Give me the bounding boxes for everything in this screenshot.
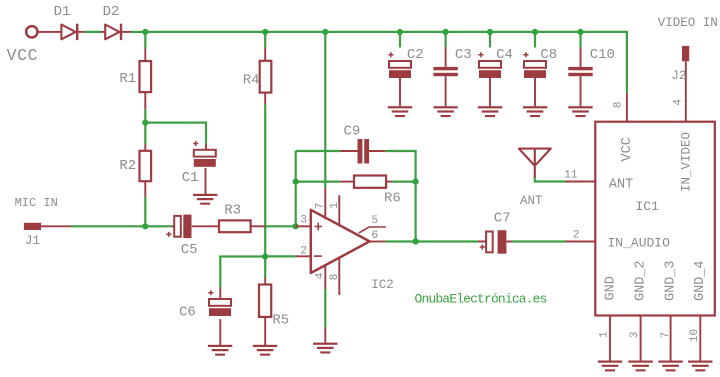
junction rail pin7 bbox=[322, 29, 328, 35]
capacitor C9 leads bbox=[340, 150, 385, 152]
ground under C8 bbox=[523, 106, 547, 117]
capacitor C1 polarized bbox=[193, 141, 216, 167]
op-amp IC2 triangle bbox=[311, 210, 370, 273]
svg-text:2: 2 bbox=[300, 246, 307, 258]
svg-text:ANT: ANT bbox=[520, 194, 543, 208]
junction rail C8 bbox=[532, 29, 538, 35]
resistor R1 bbox=[140, 61, 152, 92]
ground under IC1 pin 10 bbox=[688, 361, 712, 372]
junction rail R4 bbox=[262, 29, 268, 35]
ground under C10 bbox=[568, 106, 592, 117]
svg-text:5: 5 bbox=[372, 215, 379, 227]
svg-text:7: 7 bbox=[660, 332, 672, 339]
svg-text:J2: J2 bbox=[671, 69, 686, 83]
wire mic junction to C5 bbox=[145, 225, 171, 227]
wire J1 to mic junction bbox=[71, 225, 146, 227]
svg-text:R6: R6 bbox=[384, 190, 401, 206]
svg-text:R2: R2 bbox=[119, 158, 136, 174]
IC1 GND_3 pin 7 stub bbox=[670, 316, 672, 361]
wire C4 top lead bbox=[489, 32, 491, 48]
capacitor C9 plates bbox=[358, 139, 363, 164]
resistor R6 right lead bbox=[386, 181, 392, 183]
svg-text:GND: GND bbox=[604, 276, 619, 300]
wire C7 to IC1 IN_AUDIO pin bbox=[512, 240, 566, 242]
svg-text:11: 11 bbox=[564, 170, 578, 182]
connector pad J1 bbox=[24, 223, 41, 230]
resistor R3 right lead bbox=[251, 225, 266, 227]
svg-text:MIC IN: MIC IN bbox=[15, 196, 58, 210]
op-amp pin 3 stub bbox=[296, 225, 310, 227]
IC1 GND pin 1 stub bbox=[609, 316, 611, 361]
IC1 ANT pin stub bbox=[566, 181, 596, 183]
resistor R1 leads bbox=[144, 48, 146, 109]
wire R2 bottom to mic junction bbox=[144, 197, 146, 227]
wire D2 anode stub bbox=[101, 31, 105, 33]
wire rail drop to IC1 VCC pin bbox=[626, 31, 628, 93]
ground under C6 bbox=[208, 345, 232, 356]
svg-text:GND_3: GND_3 bbox=[663, 260, 678, 301]
wire C8 top lead bbox=[534, 32, 536, 48]
wire lower junction to opamp pin2 bbox=[265, 255, 295, 257]
op-amp minus mark bbox=[314, 255, 322, 257]
capacitor C10 top lead bbox=[580, 48, 582, 67]
ground under IC1 pin 3 bbox=[628, 361, 652, 372]
svg-text:8: 8 bbox=[613, 101, 625, 108]
capacitor C5 polarized horizontal bbox=[166, 215, 191, 239]
svg-text:3: 3 bbox=[300, 214, 307, 226]
wire lower junction to R5 top bbox=[264, 257, 266, 279]
svg-text:R5: R5 bbox=[272, 313, 289, 329]
diode D2 bbox=[105, 24, 122, 40]
svg-text:OnubaElectrónica.es: OnubaElectrónica.es bbox=[415, 292, 547, 307]
svg-text:R4: R4 bbox=[243, 73, 260, 89]
svg-text:C1: C1 bbox=[182, 170, 199, 186]
ground under R5 bbox=[253, 345, 277, 356]
op-amp pin 5 stub bbox=[359, 227, 386, 233]
svg-text:C2: C2 bbox=[407, 47, 424, 63]
svg-text:C10: C10 bbox=[590, 47, 615, 63]
resistor R6 left lead bbox=[340, 181, 354, 183]
wire R3 right to opamp pin3 junction bbox=[265, 225, 295, 227]
junction feedback right bbox=[413, 179, 419, 185]
resistor R2 leads bbox=[144, 144, 146, 196]
capacitor C7 polarized horizontal bbox=[480, 230, 507, 254]
IC1 GND_2 pin 3 stub bbox=[640, 316, 642, 361]
resistor R4 bbox=[260, 61, 272, 93]
resistor R4 leads bbox=[264, 47, 266, 104]
wire feedback left vertical bbox=[295, 151, 297, 227]
capacitor C1 leads bbox=[205, 144, 208, 194]
svg-text:J1: J1 bbox=[25, 234, 40, 248]
IC1 VCC pin stub bbox=[626, 93, 628, 122]
svg-text:GND_2: GND_2 bbox=[634, 260, 649, 301]
capacitor C3 top lead bbox=[445, 48, 447, 67]
svg-text:1: 1 bbox=[599, 331, 611, 338]
svg-text:4: 4 bbox=[315, 272, 327, 279]
wire C9 right lead bbox=[385, 150, 416, 152]
junction rail C2 bbox=[397, 29, 403, 35]
capacitor C2 polarized bbox=[388, 52, 411, 78]
junction feedback left bbox=[293, 179, 299, 185]
svg-text:VCC: VCC bbox=[620, 137, 635, 161]
svg-text:8: 8 bbox=[329, 274, 341, 281]
junction rail C4 bbox=[487, 29, 493, 35]
capacitor C4 bottom lead bbox=[489, 78, 491, 106]
VCC supply pin circle bbox=[26, 26, 37, 37]
svg-text:7: 7 bbox=[315, 203, 327, 210]
wire D2 to top rail bbox=[131, 31, 145, 33]
op-amp output pin 6 stub bbox=[370, 241, 386, 243]
op-amp pin 7 stub bbox=[324, 188, 326, 219]
junction opamp pin3 node bbox=[293, 223, 299, 229]
svg-text:4: 4 bbox=[672, 99, 684, 106]
wire R2 top lead bbox=[144, 123, 146, 145]
wire opamp pin4 to ground bbox=[324, 290, 326, 327]
capacitor C8 bottom lead bbox=[534, 78, 536, 106]
wire J2 to IC1 IN_VIDEO pin bbox=[685, 61, 687, 121]
svg-text:C4: C4 bbox=[496, 47, 513, 63]
wire R4 top lead bbox=[264, 32, 266, 47]
svg-text:GND_4: GND_4 bbox=[693, 260, 708, 301]
wire opamp pin7 power drop bbox=[324, 32, 326, 188]
svg-text:IN_AUDIO: IN_AUDIO bbox=[608, 235, 671, 250]
diode D1 bbox=[61, 24, 78, 40]
svg-text:D2: D2 bbox=[103, 4, 120, 20]
wire C2 top lead bbox=[399, 32, 401, 48]
wire C9 left lead bbox=[296, 150, 341, 152]
resistor R6 bbox=[354, 176, 386, 188]
wire top rail VCC net bbox=[145, 31, 627, 33]
wire J1 pin bbox=[41, 225, 71, 227]
ground under C2 bbox=[388, 106, 412, 117]
op-amp pin 1 stub bbox=[338, 195, 340, 226]
capacitor C3 bottom lead bbox=[445, 76, 447, 106]
svg-text:D1: D1 bbox=[54, 4, 71, 20]
svg-text:IC1: IC1 bbox=[636, 199, 660, 214]
capacitor C2 bottom lead bbox=[399, 78, 401, 106]
antenna ANT symbol bbox=[519, 149, 551, 177]
resistor R2 bbox=[140, 151, 152, 181]
capacitor C4 polarized bbox=[478, 52, 501, 78]
ground under IC1 pin 1 bbox=[598, 361, 622, 372]
svg-text:10: 10 bbox=[689, 329, 701, 342]
ground under op-amp pin4 bbox=[313, 343, 337, 354]
capacitor C6 leads bbox=[219, 287, 221, 345]
wire D1 cathode stub bbox=[77, 31, 85, 33]
junction lower node R5-C6-pin2 bbox=[262, 253, 268, 259]
svg-text:VIDEO IN: VIDEO IN bbox=[658, 16, 718, 30]
IC1 GND_4 pin 10 stub bbox=[699, 316, 701, 361]
svg-text:C7: C7 bbox=[494, 211, 511, 227]
ground under C4 bbox=[478, 106, 502, 117]
wire VCC circle to D1 bbox=[38, 31, 61, 33]
op-amp pin 4 stub bbox=[324, 264, 326, 290]
wire C10 top lead bbox=[579, 32, 581, 48]
wire R6 left lead bbox=[296, 181, 340, 183]
wire D2 cathode stub bbox=[121, 31, 131, 33]
svg-text:C9: C9 bbox=[344, 123, 361, 139]
capacitor C7 leads bbox=[478, 241, 512, 243]
wire R1 top lead bbox=[144, 32, 146, 49]
wire D1-D2 segment bbox=[85, 31, 101, 33]
wire antenna to IC1 ANT pin bbox=[535, 176, 566, 182]
wire R4 bottom long drop to lower junction bbox=[264, 104, 266, 256]
svg-text:VCC: VCC bbox=[7, 46, 39, 65]
svg-text:IC2: IC2 bbox=[371, 278, 394, 292]
resistor R5 leads bbox=[264, 278, 266, 345]
IC1 box bbox=[595, 122, 715, 316]
junction rail C3 bbox=[443, 29, 449, 35]
capacitor C3 plates bbox=[433, 67, 457, 76]
junction rail D2 bbox=[142, 29, 148, 35]
svg-text:C6: C6 bbox=[179, 305, 196, 321]
capacitor C8 polarized bbox=[523, 52, 546, 78]
junction rail C10 bbox=[577, 29, 583, 35]
op-amp plus mark bbox=[315, 223, 323, 231]
wire lower junction to C6 branch bbox=[220, 257, 265, 288]
op-amp pin 2 stub bbox=[296, 255, 310, 257]
capacitor C10 plates bbox=[568, 67, 592, 76]
capacitor C5 leads bbox=[172, 225, 220, 227]
svg-text:ANT: ANT bbox=[609, 177, 633, 192]
svg-text:6: 6 bbox=[372, 230, 379, 242]
wire R1 bottom to junction bbox=[144, 109, 146, 122]
svg-text:3: 3 bbox=[629, 332, 641, 339]
junction mic node bbox=[142, 223, 148, 229]
wire R6 right lead bbox=[392, 181, 416, 183]
IC1 IN_AUDIO pin stub bbox=[566, 241, 596, 243]
wire feedback right vertical bbox=[415, 150, 417, 242]
ground under C3 bbox=[433, 106, 457, 117]
capacitor C10 bottom lead bbox=[580, 76, 582, 106]
svg-text:R3: R3 bbox=[224, 202, 241, 218]
junction R1-R2-C1 bbox=[142, 120, 148, 126]
svg-text:IN_VIDEO: IN_VIDEO bbox=[679, 132, 693, 192]
ground under C1 bbox=[193, 194, 217, 205]
svg-text:C3: C3 bbox=[455, 47, 472, 63]
svg-text:2: 2 bbox=[573, 230, 580, 242]
svg-text:C5: C5 bbox=[181, 242, 198, 258]
ground under IC1 pin 7 bbox=[658, 361, 682, 372]
connector pad J2 bbox=[682, 46, 689, 61]
wire C3 top lead bbox=[445, 32, 447, 48]
op-amp pin 8 stub bbox=[338, 257, 340, 295]
wire opamp output to C7 bbox=[386, 240, 479, 242]
svg-text:R1: R1 bbox=[119, 71, 136, 87]
svg-text:C8: C8 bbox=[540, 47, 557, 63]
svg-text:1: 1 bbox=[329, 202, 341, 209]
op-amp pin4 wire to ground bbox=[324, 327, 326, 343]
junction opamp output bbox=[413, 238, 419, 244]
wire junction to C1 branch bbox=[145, 123, 206, 144]
resistor R3 bbox=[219, 220, 251, 232]
resistor R5 bbox=[259, 285, 271, 317]
capacitor C6 polarized bbox=[208, 290, 231, 316]
